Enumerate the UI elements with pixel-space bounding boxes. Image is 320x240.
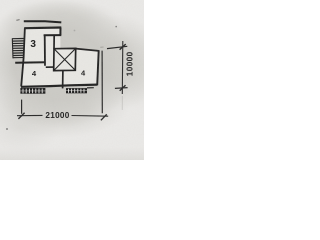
room 3 right wall bbox=[44, 35, 46, 66]
noise speck near canopy right bbox=[74, 30, 76, 32]
dim 10000 line bbox=[121, 41, 124, 94]
dim 21000 line left segment bbox=[17, 114, 43, 116]
room divider wall bbox=[15, 61, 45, 64]
dim 21000 right tick bbox=[101, 114, 107, 120]
stair rung 4 bbox=[12, 45, 23, 47]
wall below shaft bbox=[62, 71, 64, 89]
step vertical wall bbox=[59, 28, 61, 36]
stair rung 3 bbox=[12, 42, 23, 44]
right section top wall bbox=[76, 49, 99, 51]
top wall bbox=[25, 26, 62, 29]
stair rung 7 bbox=[13, 52, 24, 54]
step horizontal wall bbox=[44, 34, 62, 36]
dim 21000 line right segment bbox=[72, 115, 109, 118]
stair block left edge bbox=[11, 38, 14, 58]
stair rung 9 bbox=[13, 57, 24, 59]
shaft upper left wall bbox=[53, 35, 55, 48]
stair rung 8 bbox=[13, 54, 24, 56]
shaft box bbox=[54, 48, 76, 70]
left wall bbox=[21, 27, 25, 86]
dim right long extension line bbox=[101, 51, 103, 114]
dim 21000 left tick bbox=[18, 113, 24, 119]
noise speck bottom left bbox=[6, 128, 8, 130]
faint dim line tail below 10000 bbox=[121, 96, 123, 110]
stair rung 5 bbox=[13, 47, 24, 49]
dim 21000 left extension line bbox=[21, 100, 23, 114]
faint smudge near extension top bbox=[100, 46, 103, 48]
dim 10000 bottom extension line bbox=[115, 87, 128, 90]
small dash left of canopy bbox=[16, 19, 19, 22]
room interiors lighter fill bbox=[21, 28, 98, 87]
right wall bbox=[97, 50, 99, 85]
right hatched entrance band bbox=[66, 88, 94, 94]
paper mottle bbox=[0, 0, 144, 160]
dim 10000 top tick bbox=[120, 44, 126, 50]
stair rung 1 bbox=[12, 38, 23, 40]
dim 10000 top extension line bbox=[107, 46, 127, 48]
left hatched entrance band bbox=[20, 88, 45, 94]
shaft bottom left wall extension bbox=[46, 66, 54, 68]
canopy line above building bbox=[24, 21, 62, 22]
bottom wall bbox=[21, 85, 97, 87]
dim 10000 bottom tick bbox=[120, 85, 126, 91]
right band tail line bbox=[87, 87, 94, 89]
shaft diagonal 1 bbox=[54, 49, 75, 71]
shaft diagonal 2 bbox=[54, 48, 76, 70]
noise speck top right bbox=[115, 26, 117, 28]
stair rung 6 bbox=[13, 50, 24, 52]
stair rung 2 bbox=[12, 40, 23, 42]
